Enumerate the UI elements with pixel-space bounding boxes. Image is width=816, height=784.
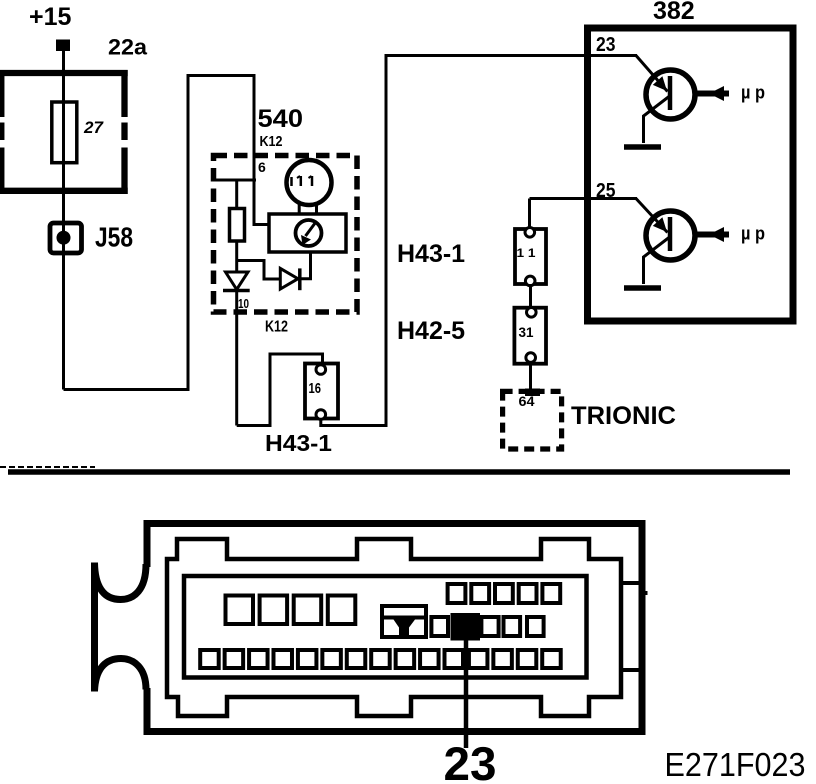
svg-text:31: 31 [519, 324, 534, 340]
svg-text:µ p: µ p [741, 83, 765, 103]
svg-text:10: 10 [238, 296, 249, 311]
svg-text:K12: K12 [260, 133, 283, 150]
svg-text:+15: +15 [29, 3, 72, 31]
svg-text:382: 382 [653, 0, 695, 25]
svg-text:23: 23 [596, 34, 616, 56]
svg-text:16: 16 [309, 380, 322, 397]
svg-text:64: 64 [519, 393, 535, 409]
svg-text:J58: J58 [95, 222, 133, 253]
svg-text:1 1: 1 1 [517, 246, 536, 260]
svg-text:E271F023: E271F023 [665, 746, 806, 783]
svg-text:540: 540 [258, 105, 304, 133]
svg-text:27: 27 [83, 118, 104, 137]
svg-text:H43-1: H43-1 [397, 240, 465, 268]
svg-text:6: 6 [258, 159, 266, 175]
svg-text:H43-1: H43-1 [265, 430, 332, 456]
svg-text:23: 23 [444, 737, 497, 784]
svg-text:µ p: µ p [741, 224, 765, 244]
svg-text:H42-5: H42-5 [397, 317, 465, 345]
svg-text:K12: K12 [265, 319, 288, 336]
svg-text:22a: 22a [108, 35, 148, 60]
svg-text:TRIONIC: TRIONIC [571, 402, 676, 430]
